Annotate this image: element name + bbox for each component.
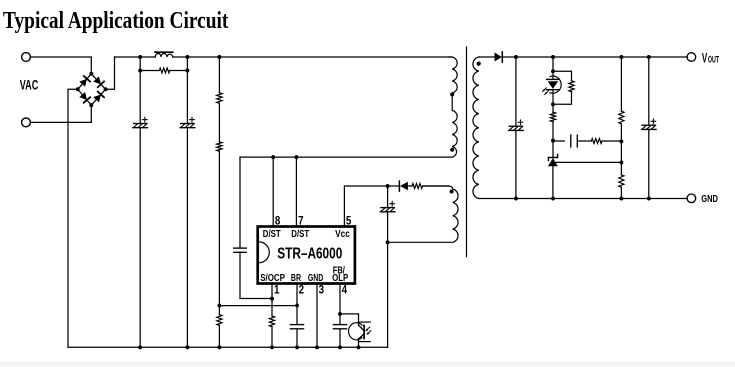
svg-text:OUT: OUT [708, 54, 719, 65]
pin number 5 [346, 215, 351, 228]
resistor opto parallel [569, 81, 574, 92]
U1 notch [259, 242, 269, 263]
svg-text:GND: GND [701, 193, 718, 205]
node gnd bus x140 [138, 345, 142, 349]
wire bridge left corner to ground bus [68, 89, 78, 347]
resistor BR bottom [217, 315, 222, 326]
bridge rectifier diamond wires [78, 74, 106, 105]
output terminal GND [687, 194, 696, 203]
wire FB to phototransistor [340, 314, 359, 325]
node DC bus at x187 [185, 55, 189, 59]
wire Vcc node to diode [388, 185, 399, 187]
wire opto parallel resistor top [553, 71, 572, 81]
wire opto branch upper [552, 57, 554, 71]
resistor opto series [550, 112, 555, 122]
diode Vcc rectifier [400, 182, 408, 191]
wire aux return to ground bus [387, 242, 389, 347]
page bottom scan edge band [0, 362, 735, 367]
node gnd bus pin4 [338, 345, 342, 349]
node aux return [386, 240, 390, 244]
wire drain snubber upper [239, 157, 241, 248]
U1 pin label GND [308, 272, 323, 284]
bridge corner node left [76, 87, 80, 91]
node divider ref tap [619, 160, 623, 164]
svg-text:5: 5 [346, 215, 351, 228]
node gnd bus pin1 [270, 345, 274, 349]
node drain rail pin7 [294, 155, 298, 159]
capacitor output C_out1 (electrolytic) [509, 120, 524, 130]
capacitor bulk C2 (electrolytic) [180, 117, 195, 127]
node gnd rail shunt [551, 197, 555, 201]
AC input terminal bottom [22, 118, 31, 127]
wire bottom terminal to bridge bottom [30, 105, 91, 122]
node opto LED bottom [551, 102, 555, 106]
capacitor output C_out2 (electrolytic) [642, 119, 657, 129]
svg-text:D/ST: D/ST [291, 228, 309, 239]
LED optocoupler emitter [552, 71, 554, 79]
bridge corner node bottom [89, 103, 93, 107]
node opto LED top [551, 69, 555, 73]
wire DC bus top rail [115, 56, 453, 58]
wire choke bypass right [170, 57, 188, 71]
pin number 3 [319, 284, 324, 297]
wire choke bypass left [140, 57, 159, 71]
wire drain snubber lower [240, 252, 272, 298]
svg-text:S/OCP: S/OCP [260, 272, 285, 283]
svg-text:STR–A6000: STR–A6000 [277, 244, 342, 262]
svg-text:V: V [702, 51, 708, 66]
capacitor compensation [571, 135, 578, 147]
inductor filter choke [155, 54, 173, 58]
label GND [701, 193, 718, 205]
wire bridge right corner to DC bus [106, 57, 115, 89]
capacitor bulk C1 (electrolytic) [133, 117, 148, 127]
wire opto parallel resistor bottom [553, 92, 572, 105]
U1 pin label Vcc [335, 229, 350, 240]
svg-text:4: 4 [342, 284, 347, 297]
resistor Vcc series [412, 184, 423, 189]
wire pin3 GND stub [316, 284, 318, 348]
svg-text:GND: GND [308, 272, 323, 284]
svg-text:8: 8 [275, 215, 280, 228]
svg-text:Typical Application Circuit: Typical Application Circuit [3, 7, 229, 33]
wire shunt upper lead [552, 141, 554, 158]
capacitor Vcc (electrolytic) [380, 201, 395, 211]
label Vout [702, 51, 708, 66]
wire output cap1 branch [515, 57, 517, 199]
node gnd rail divider [619, 197, 623, 201]
svg-text:3: 3 [319, 284, 324, 297]
node compensation tap [551, 139, 555, 143]
U1 pin label S/OCP [260, 272, 285, 283]
transformer core [466, 47, 468, 257]
U1 pin label D/ST pin7 [291, 228, 309, 239]
node DC bus at x140 [138, 55, 142, 59]
node aux polarity dot [450, 190, 454, 194]
wire BR divider upper [218, 57, 220, 93]
node gnd bus x219 [217, 345, 221, 349]
node secondary polarity dot [477, 62, 481, 66]
wire pin5 Vcc up and right [344, 186, 387, 227]
U1 part label STR-A6000 [277, 244, 342, 262]
wire opto series leads [552, 104, 554, 140]
node choke bypass left [138, 69, 142, 73]
node divider comp tap [619, 139, 623, 143]
node pin2 BR [295, 303, 299, 307]
wire pin1 resistor leads [271, 299, 273, 348]
wire drain rail to transformer [240, 156, 452, 158]
capacitor BR filter [290, 325, 303, 329]
node gnd bus pin3 [315, 345, 319, 349]
node Vout rail cap1 [514, 55, 518, 59]
resistor S/OCP sense [269, 316, 274, 327]
bridge diode D1 (left-top edge) [79, 76, 90, 87]
wire phototransistor emitter to ground bus [358, 339, 360, 347]
U1 pin label D/ST pin8 [263, 228, 281, 239]
wire BR divider to BR node [219, 151, 297, 305]
wire pin4 stub [339, 284, 341, 348]
wire shunt lower lead [552, 166, 554, 198]
wire pin7 stub [295, 157, 297, 226]
node drain rail pin8 [271, 155, 275, 159]
node gnd bus photo [357, 345, 361, 349]
transformer auxiliary winding [388, 186, 458, 242]
resistor BR divider upper [217, 93, 222, 103]
resistor divider lower [619, 175, 624, 187]
AC input terminal top [22, 53, 31, 62]
node Vcc supply [386, 184, 390, 188]
wire shunt reference [555, 161, 621, 163]
resistor divider upper [619, 111, 624, 124]
node primary polarity dot lower [450, 148, 454, 152]
op-amp U1 STR-A6000 body [258, 227, 355, 284]
pin number 4 [342, 284, 347, 297]
bridge diode D4 (bottom-right edge) [93, 92, 104, 103]
node DC bus at x219 [217, 55, 221, 59]
wire divider upper lead [620, 57, 622, 111]
wire Vout rail [502, 56, 687, 58]
wire output cap2 branch [648, 57, 650, 199]
output terminal Vout [687, 53, 696, 62]
node gnd bus x187 [185, 345, 189, 349]
wire Vcc cap branch [387, 186, 389, 242]
node gnd bus pin2 [295, 345, 299, 349]
pin number 8 [275, 215, 280, 228]
bridge diode D3 (left-bottom edge) [79, 92, 90, 103]
title text [3, 7, 229, 33]
wire pin1 stub [271, 284, 273, 299]
transformer primary winding [449, 57, 458, 157]
node Vout rail cap2 [647, 55, 651, 59]
transistor PC1 phototransistor [349, 323, 362, 340]
node Vout rail opto branch [551, 55, 555, 59]
wire divider lower lead [620, 187, 622, 198]
resistor BR divider lower [217, 142, 222, 151]
node pin4 FB [338, 312, 342, 316]
U1 pin label BR [291, 272, 302, 284]
pin number 2 [299, 284, 304, 297]
svg-text:OLP: OLP [332, 272, 348, 283]
bridge diode D2 (top-right edge) [93, 76, 104, 87]
transformer secondary winding [473, 57, 479, 199]
bridge corner node top [89, 72, 93, 76]
wire primary ground bus [68, 346, 388, 348]
svg-text:Vcc: Vcc [335, 229, 350, 240]
wire bulk cap1 branch [139, 71, 141, 348]
wire divider middle [620, 124, 622, 175]
resistor choke damping [159, 68, 170, 73]
wire Vcc resistor to aux winding [423, 185, 449, 187]
label VAC [20, 78, 39, 93]
wire pin2 stub [296, 284, 298, 348]
node Vout rail divider [619, 55, 623, 59]
wire bulk cap2 branch [186, 71, 188, 348]
svg-text:7: 7 [298, 215, 303, 228]
svg-text:D/ST: D/ST [263, 228, 281, 239]
pin number 7 [298, 215, 303, 228]
node BR divider tap [217, 304, 221, 308]
node gnd rail cap2 [647, 197, 651, 201]
wire BR bottom resistor leads [218, 306, 220, 348]
node choke bypass right [185, 69, 189, 73]
node pin1 S/OCP [270, 297, 274, 301]
U1 pin label OLP [332, 272, 348, 283]
wire comp node to cap [553, 140, 564, 142]
U1 pin label FB/ [333, 264, 346, 275]
svg-text:VAC: VAC [20, 78, 39, 93]
svg-text:2: 2 [299, 284, 304, 297]
diode shunt regulator U2 [548, 154, 557, 160]
resistor compensation [591, 139, 602, 144]
wire secondary top to rectifier [479, 56, 495, 58]
wire comp cap to resistor [577, 140, 591, 142]
svg-text:BR: BR [291, 272, 302, 284]
capacitor drain snubber [234, 248, 247, 252]
wire pin8 stub [272, 157, 274, 226]
wire BR divider middle [218, 103, 220, 142]
capacitor FB filter [333, 325, 346, 329]
wire top terminal to bridge top [30, 57, 91, 74]
pin number 1 [274, 284, 279, 297]
diode output rectifier [495, 53, 502, 62]
bridge corner node right [104, 87, 108, 91]
wire comp resistor to divider [602, 140, 621, 142]
node primary polarity dot upper [450, 92, 454, 96]
svg-text:1: 1 [274, 284, 279, 297]
wire secondary ground rail [479, 198, 687, 200]
node gnd rail cap1 [514, 197, 518, 201]
